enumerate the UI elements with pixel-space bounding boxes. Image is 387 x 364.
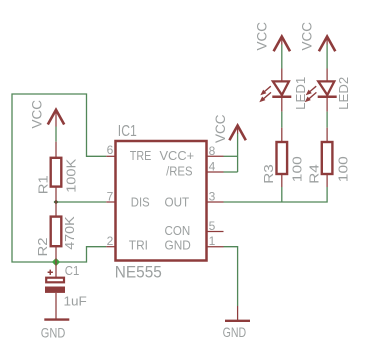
wire VCC to R1 xyxy=(55,127,57,142)
svg-text:VCC: VCC xyxy=(299,22,314,51)
IC1 NE555 body xyxy=(116,141,207,261)
resistor R3 lead bottom xyxy=(281,174,283,187)
wire pin 1 GND to ground xyxy=(224,247,238,306)
svg-text:DIS: DIS xyxy=(131,196,150,210)
capacitor C1 top plate xyxy=(46,278,64,283)
wire LED1 to R3 xyxy=(281,112,283,128)
LED2 anode lead xyxy=(326,69,328,82)
svg-text:OUT: OUT xyxy=(165,196,190,210)
svg-text:R4: R4 xyxy=(306,164,321,184)
capacitor C1 lead top xyxy=(55,262,57,277)
wire pin 4 to VCC riser xyxy=(224,171,238,173)
LED1 anode lead xyxy=(281,69,283,82)
resistor R4 body xyxy=(322,142,333,174)
LED2 cathode bar xyxy=(318,96,337,99)
ground symbol GND left xyxy=(44,318,69,320)
svg-text:VCC: VCC xyxy=(255,22,270,51)
svg-text:R3: R3 xyxy=(261,164,276,184)
resistor R1 body xyxy=(51,158,62,187)
pin 7 DIS stub xyxy=(106,201,115,203)
LED2 emission arrow lower xyxy=(305,92,317,102)
vcc symbol VCC left (arrow) xyxy=(48,110,64,127)
wire net from junction around left side to pin 6 TRE xyxy=(12,94,106,262)
resistor R2 body xyxy=(51,217,62,247)
svg-text:470K: 470K xyxy=(62,216,77,250)
LED2 triangle xyxy=(318,81,334,95)
wire R1/R2 node to pin 7 DIS xyxy=(56,201,106,203)
svg-text:1uF: 1uF xyxy=(64,294,87,309)
svg-text:CON: CON xyxy=(165,224,191,238)
svg-text:TRI: TRI xyxy=(129,239,148,253)
svg-text:6: 6 xyxy=(107,143,114,157)
svg-text:IC1: IC1 xyxy=(118,123,137,140)
resistor R4 lead bottom xyxy=(326,174,328,187)
ground symbol GND middle bar xyxy=(225,320,250,322)
svg-text:GND: GND xyxy=(223,324,247,340)
wire junction to pin 2 TRI xyxy=(56,247,106,262)
wire pin 3 OUT to R3 and R4 xyxy=(224,187,328,202)
wire R3 bottom to OUT net xyxy=(281,187,283,202)
LED2 cathode lead to R4 xyxy=(326,97,328,112)
resistor R2 lead bottom xyxy=(55,246,57,262)
pin 1 GND stub xyxy=(207,246,224,248)
LED1 emission arrow lower xyxy=(259,92,271,102)
pin 8 VCC+ stub xyxy=(207,155,224,157)
wire VCC to LED1 anode xyxy=(281,45,283,69)
LED2 emission arrow upper xyxy=(306,86,317,95)
wire LED2 to R4 xyxy=(326,112,328,128)
svg-text:VCC: VCC xyxy=(29,100,44,129)
LED1 triangle xyxy=(273,81,289,95)
svg-text:NE555: NE555 xyxy=(115,264,162,282)
svg-text:C1: C1 xyxy=(65,263,80,278)
svg-text:TRE: TRE xyxy=(130,149,152,163)
pin 4 /RES stub xyxy=(207,171,224,173)
vcc symbol VCC for LED2 (arrow) xyxy=(319,37,335,52)
svg-text:100K: 100K xyxy=(64,159,79,193)
svg-text:VCC+: VCC+ xyxy=(160,149,195,163)
ground symbol GND middle lead xyxy=(237,306,239,320)
resistor R3 lead top xyxy=(281,128,283,142)
svg-text:3: 3 xyxy=(209,190,216,204)
pin 5 CON stub xyxy=(207,231,224,233)
svg-text:LED2: LED2 xyxy=(336,77,351,110)
svg-text:100: 100 xyxy=(335,156,350,182)
svg-text:7: 7 xyxy=(107,190,114,204)
pin 3 OUT stub xyxy=(207,201,224,203)
wire VCC to LED2 anode xyxy=(326,45,328,69)
resistor R1 lead top xyxy=(55,142,57,158)
svg-text:8: 8 xyxy=(209,144,216,158)
svg-text:R1: R1 xyxy=(36,175,51,194)
resistor R3 body xyxy=(277,142,288,174)
svg-text:4: 4 xyxy=(209,160,216,174)
junction dot at R2/C1/TRI node xyxy=(52,258,60,266)
pin 2 TRI stub xyxy=(106,246,115,248)
pin 6 TRE stub xyxy=(106,155,115,157)
svg-text:5: 5 xyxy=(209,219,216,233)
capacitor C1 plus sign xyxy=(48,270,53,275)
vcc symbol VCC for LED1 (arrow) xyxy=(274,37,290,52)
resistor R2 lead top xyxy=(55,202,57,217)
resistor R1 lead bottom xyxy=(55,187,57,202)
svg-text:100: 100 xyxy=(290,156,305,182)
LED1 cathode bar xyxy=(272,96,291,99)
capacitor C1 lead bottom xyxy=(55,293,57,319)
svg-text:GND: GND xyxy=(165,239,191,253)
svg-text:2: 2 xyxy=(107,234,114,248)
resistor R4 lead top xyxy=(326,128,328,142)
svg-text:/RES: /RES xyxy=(166,165,192,179)
svg-text:LED1: LED1 xyxy=(293,77,308,110)
svg-text:R2: R2 xyxy=(35,238,50,257)
vcc symbol VCC at IC (arrow) xyxy=(229,126,245,141)
svg-text:1: 1 xyxy=(209,234,216,248)
wire VCC riser vertical xyxy=(237,133,239,172)
LED1 cathode lead to R3 xyxy=(281,97,283,112)
svg-text:GND: GND xyxy=(41,324,66,340)
junction dot at R1/R2/DIS node xyxy=(54,200,59,205)
svg-text:VCC: VCC xyxy=(213,114,228,143)
capacitor C1 bottom plate xyxy=(45,287,65,293)
LED1 emission arrow upper xyxy=(260,86,271,95)
wire pin 8 to VCC riser xyxy=(224,155,238,157)
